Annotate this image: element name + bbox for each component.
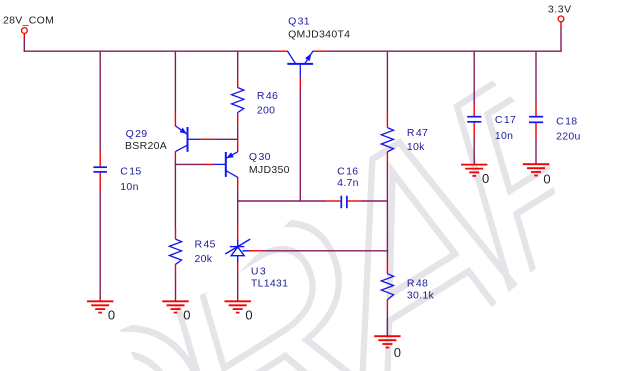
wire U3 cathode [237, 200, 239, 225]
wire C16 left [237, 200, 325, 202]
svg-text:MJD350: MJD350 [249, 164, 290, 176]
wire 3.3V riser [560, 27, 562, 52]
capacitor C15 plates [93, 167, 107, 172]
svg-text:28V_COM: 28V_COM [3, 15, 54, 27]
svg-text:R48: R48 [407, 277, 428, 289]
pin U3 cathode [237, 225, 239, 240]
wire R47 bottom to R48 [386, 162, 388, 260]
wire R47 top [386, 51, 388, 114]
wire Q29 base horizontal [213, 138, 238, 140]
pin 28V terminal stub [23, 34, 25, 39]
pin C18 pin1 [535, 103, 537, 116]
wire C17 top [473, 51, 475, 103]
wire C17 bottom [473, 137, 475, 164]
pin C15 pin1 [99, 151, 101, 166]
capacitor C17 plates [467, 117, 481, 122]
pin R48 pin1 [386, 259, 388, 273]
capacitor C16 plates [341, 196, 347, 209]
svg-text:200: 200 [257, 104, 275, 116]
pin C15 pin2 [99, 173, 101, 190]
resistor R46 zigzag [232, 88, 244, 113]
wire C15 bottom [99, 189, 101, 302]
ground U3 [225, 301, 251, 312]
wire U3 ref horizontal [262, 250, 388, 252]
resistor R48 zigzag [381, 274, 393, 300]
svg-text:Q30: Q30 [249, 151, 271, 163]
wire 28V riser [23, 38, 25, 52]
svg-text:R47: R47 [407, 127, 428, 139]
wire C18 bottom [535, 140, 537, 165]
svg-text:TL1431: TL1431 [251, 277, 288, 289]
transistor Q29 [175, 126, 200, 152]
svg-text:U3: U3 [251, 266, 266, 278]
svg-text:0: 0 [245, 308, 252, 323]
wire U3 anode [237, 273, 239, 302]
svg-text:0: 0 [183, 308, 190, 323]
svg-text:C17: C17 [495, 114, 516, 126]
arrow Q30 emitter [226, 152, 234, 158]
svg-text:BSR20A: BSR20A [125, 140, 167, 152]
terminal 28V_COM circle [22, 28, 28, 34]
transistor Q31 [287, 51, 313, 77]
wire left bus [24, 50, 276, 52]
pin C17 pin2 [473, 123, 475, 138]
svg-text:0: 0 [394, 345, 401, 360]
svg-text:Q29: Q29 [126, 128, 148, 140]
svg-text:10n: 10n [120, 181, 138, 193]
capacitor C18 plates [529, 117, 543, 123]
pin Q30 emitter [237, 139, 239, 152]
wire C16 right [361, 200, 388, 202]
wire R48 bottom [386, 310, 388, 336]
wire C18 top [535, 51, 537, 103]
svg-text:220u: 220u [556, 131, 581, 143]
pin C17 pin1 [473, 104, 475, 117]
svg-text:20k: 20k [195, 253, 213, 265]
pin R45 pin2 [175, 264, 177, 279]
ground R45 [162, 301, 188, 312]
svg-text:C18: C18 [556, 115, 577, 127]
svg-text:3.3V: 3.3V [548, 3, 572, 15]
pin Q29 base [200, 138, 214, 140]
pin Q29 collector [174, 151, 176, 161]
resistor R45 zigzag [169, 239, 181, 264]
pin R48 pin2 [386, 300, 388, 311]
pin C18 pin2 [535, 123, 537, 140]
svg-text:0: 0 [482, 171, 489, 186]
arrow Q31 emitter [305, 53, 311, 61]
svg-text:C16: C16 [337, 166, 358, 178]
wire Q31 base drop [299, 88, 301, 202]
svg-text:0: 0 [543, 172, 550, 187]
pin 3.3V terminal stub [560, 22, 562, 28]
pin R45 pin1 [175, 228, 177, 239]
wire C15 top [99, 51, 101, 151]
svg-text:0: 0 [108, 308, 115, 323]
svg-text:R46: R46 [257, 90, 278, 102]
ground C17 [461, 165, 487, 176]
arrow Q29 emitter [180, 128, 187, 134]
pin C16 pin1 [325, 200, 340, 202]
ground C15 [87, 301, 113, 312]
svg-text:30.1k: 30.1k [407, 290, 435, 302]
pin R47 pin2 [386, 152, 388, 163]
pin Q29 emitter [174, 113, 176, 127]
wire R46 bottom node [237, 126, 239, 140]
wire Q30 base horizontal [175, 163, 206, 165]
ground R48 [374, 336, 400, 347]
wire Q29 emitter drop [174, 51, 176, 113]
pin Q30 collector [237, 177, 239, 189]
wire R46 top [237, 51, 239, 77]
pin Q31 emitter [313, 50, 326, 52]
wire R45 bottom [175, 279, 177, 302]
terminal 3.3V circle [558, 16, 564, 22]
svg-text:4.7n: 4.7n [337, 177, 359, 189]
svg-text:Q31: Q31 [288, 15, 310, 27]
resistor R47 zigzag [381, 128, 393, 152]
pin U3 ref [249, 250, 263, 252]
pin U3 anode [237, 262, 239, 273]
ground C18 [523, 164, 549, 175]
svg-text:10n: 10n [495, 130, 513, 142]
transistor Q30 [214, 152, 238, 178]
pin Q31 collector [276, 50, 288, 52]
pin R46 pin1 [237, 77, 239, 88]
svg-text:QMJD340T4: QMJD340T4 [288, 28, 350, 40]
shunt regulator U3 TL1431 [225, 239, 250, 262]
wire Q30 collector drop [237, 189, 239, 202]
pin C16 pin2 [348, 200, 362, 202]
wire Q29 collector to R45 [174, 161, 176, 228]
wire right bus [326, 50, 562, 52]
pin Q31 base [299, 77, 301, 88]
pin R47 pin1 [386, 114, 388, 127]
pin Q30 base [205, 163, 214, 165]
svg-text:R45: R45 [195, 239, 216, 251]
svg-text:10k: 10k [407, 141, 425, 153]
svg-text:C15: C15 [120, 166, 141, 178]
pin R46 pin2 [237, 112, 239, 126]
